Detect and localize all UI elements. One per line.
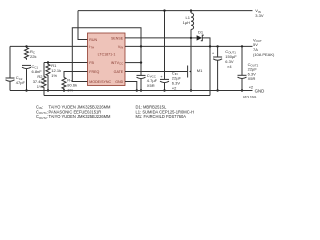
resistor R2 37.4k <box>42 63 46 96</box>
transistor M1 MOSFET <box>187 66 189 78</box>
svg-text:X5R: X5R <box>248 76 256 81</box>
capacitor COUT1 <box>216 45 218 47</box>
wire: FB sense line to VOUT <box>44 95 210 97</box>
svg-text:LTC1871-1: LTC1871-1 <box>98 53 116 57</box>
svg-text:ITH: ITH <box>89 45 94 50</box>
svg-text:1%: 1% <box>51 73 57 78</box>
wire: top VIN rail <box>78 10 253 12</box>
ground rail <box>10 90 253 92</box>
capacitor CIN <box>164 11 166 80</box>
svg-text:47pF: 47pF <box>16 80 26 85</box>
svg-text:GATE: GATE <box>114 70 124 74</box>
resistor RC 22k <box>25 46 29 59</box>
svg-text:INTVCC: INTVCC <box>111 61 123 66</box>
svg-text:3.3V: 3.3V <box>255 13 264 18</box>
inductor L1 <box>190 9 192 11</box>
svg-text:GND: GND <box>115 80 123 84</box>
wire: ITH wire <box>10 45 88 47</box>
svg-text:1%: 1% <box>37 84 43 89</box>
node: VIN/INTVcc vertical junction <box>140 45 142 47</box>
svg-text:1µH: 1µH <box>183 20 191 25</box>
wire: VIN pin to VOUT rail wire <box>125 45 253 47</box>
resistor R1 12.1k <box>46 63 50 91</box>
wire: INTVCC stub <box>125 62 141 64</box>
wire: MODE/SYNC over-IC route <box>72 28 141 82</box>
diode D1 (schottky) <box>191 37 197 39</box>
capacitor CVCC <box>140 63 142 76</box>
wire: GND pin drop <box>125 82 137 91</box>
wire: RUN vertical from rail <box>78 11 88 40</box>
wire: SENSE to switch node <box>125 37 191 39</box>
svg-text:RUN: RUN <box>89 38 97 42</box>
svg-text:TAIYO YUDEN JMK325BJ226MM: TAIYO YUDEN JMK325BJ226MM <box>49 114 112 119</box>
svg-text:MODE/SYNC: MODE/SYNC <box>89 80 111 84</box>
svg-text:22k: 22k <box>30 54 36 59</box>
node: FB/R1 junction <box>47 61 49 63</box>
node: RC chain to ground <box>25 89 27 91</box>
node: ITH/RC junction <box>25 45 27 47</box>
capacitor CC2 <box>9 46 11 78</box>
svg-text:M1: M1 <box>197 68 203 73</box>
svg-text:COUT2:: COUT2: <box>36 114 48 120</box>
svg-text:M1: FAIRCHILD FDS7760A: M1: FAIRCHILD FDS7760A <box>136 114 187 119</box>
node: switch node / SENSE <box>190 37 192 39</box>
wire: VOUT drop from D1 to FB line <box>209 46 211 95</box>
svg-text:D1: D1 <box>198 30 204 35</box>
svg-text:X5R: X5R <box>147 83 155 88</box>
IC U1 LTC1871-1 <box>88 33 126 86</box>
capacitor CC1 <box>22 64 31 66</box>
svg-text:VIN: VIN <box>118 45 123 50</box>
svg-text:×4: ×4 <box>227 64 232 69</box>
svg-text:GND: GND <box>255 88 265 93</box>
wire: FB wire <box>44 62 88 64</box>
wire: FREQ to RT <box>64 72 88 78</box>
resistor RT 80.6k <box>62 78 66 92</box>
svg-text:×2: ×2 <box>172 86 177 91</box>
svg-text:FREQ: FREQ <box>89 70 99 74</box>
svg-text:FB: FB <box>89 61 94 65</box>
wire: GATE to M1 <box>125 71 187 73</box>
svg-text:1871 TA01: 1871 TA01 <box>243 95 257 99</box>
capacitor COUT2 <box>241 45 243 47</box>
svg-text:(10A PEAK): (10A PEAK) <box>253 52 275 57</box>
svg-text:SENSE: SENSE <box>111 36 124 40</box>
svg-text:×2: ×2 <box>249 85 254 90</box>
